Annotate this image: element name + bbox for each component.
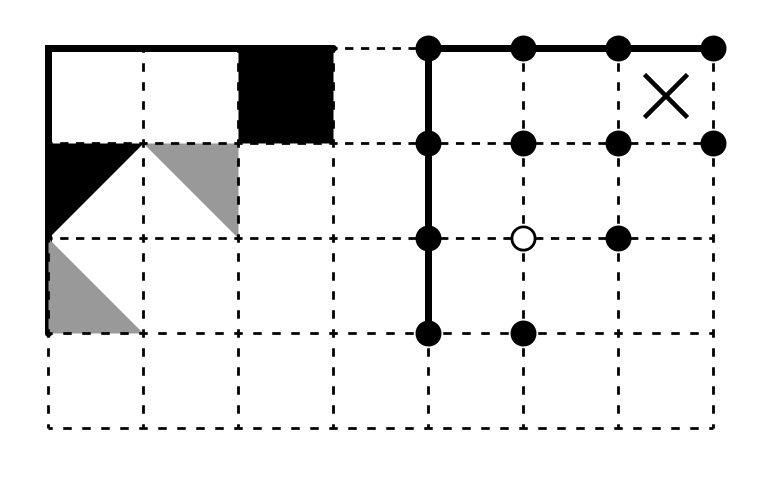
dot row2 col4 — [416, 131, 442, 157]
grid horizontal line y=48.5 — [49, 47, 714, 50]
grid horizontal line y=238.5 — [49, 237, 714, 240]
gray half-square triangle (row 3, col 1) — [49, 239, 144, 334]
thick border of right figure — [429, 49, 714, 334]
lattice dots of right figure — [416, 36, 727, 347]
black filled square cell (row 1, col 3) — [239, 49, 334, 144]
dot row1 col7 — [701, 36, 727, 62]
dot row4 col5 — [511, 321, 537, 347]
dashed grid — [49, 49, 714, 429]
grid horizontal line y=428.5 — [49, 427, 714, 430]
X mark in cell row1 col6-7 — [645, 75, 688, 118]
dot row2 col6 — [606, 131, 632, 157]
dot row2 col5 — [511, 131, 537, 157]
grid vertical line x=523.5 — [522, 49, 525, 429]
grid vertical line x=713.5 — [712, 49, 715, 429]
dot row2 col7 — [701, 131, 727, 157]
dot row3 col6 — [606, 226, 632, 252]
grid vertical line x=48.5 — [47, 49, 50, 429]
dot row1 col6 — [606, 36, 632, 62]
grid vertical line x=143.5 — [142, 49, 145, 429]
open circle at row3 col5 — [512, 227, 535, 250]
grid horizontal line y=143.5 — [49, 142, 714, 145]
dot row1 col4 — [416, 36, 442, 62]
grid vertical line x=238.5 — [237, 49, 240, 429]
grid vertical line x=618.5 — [617, 49, 620, 429]
dot row4 col4 — [416, 321, 442, 347]
dot row3 col4 — [416, 226, 442, 252]
gray half-square triangle (row 2, col 2) — [144, 144, 239, 239]
grid vertical line x=333.5 — [332, 49, 335, 429]
thick border of left figure — [49, 49, 334, 334]
black half-square triangle (row 2, col 1) — [49, 144, 144, 239]
grid horizontal line y=333.5 — [49, 332, 714, 335]
dot row1 col5 — [511, 36, 537, 62]
grid vertical line x=428.5 — [427, 49, 430, 429]
